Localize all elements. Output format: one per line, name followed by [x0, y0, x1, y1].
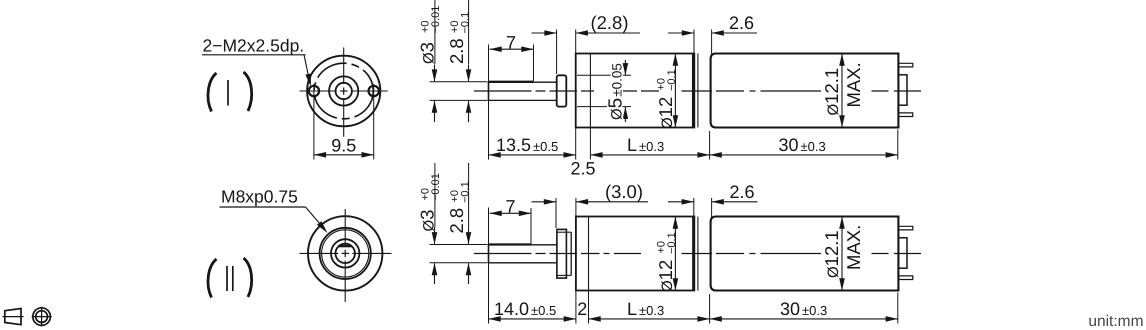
svg-text:(3.0): (3.0) [605, 181, 643, 202]
dimension 3.0ref tail left [532, 201, 557, 203]
dimension 2.8ref ext up from gearbox [575, 30, 577, 54]
svg-text:9.5: 9.5 [331, 135, 356, 155]
phi3 dim stub top [434, 0, 436, 64]
phi3-2 dim line lower [434, 263, 436, 284]
shaft top ext to left [430, 81, 488, 83]
shaft flat edge [489, 81, 534, 83]
svg-text:Ø3: Ø3 [417, 210, 438, 232]
gearbox rear thick edge 2 [692, 217, 695, 291]
flat 2.8-2 dim line upper [468, 229, 470, 244]
svg-text:−0.1: −0.1 [666, 232, 678, 254]
extension line left hole [313, 84, 315, 160]
dimension 2.6 ext right [711, 30, 713, 57]
phi12 dim line [674, 54, 676, 128]
view II mark right parenthesis [244, 258, 252, 297]
svg-text:Ø3: Ø3 [417, 42, 438, 64]
shaft top edge [489, 81, 557, 83]
view I horizontal centreline [300, 90, 337, 92]
shaft top ext to left 2 [430, 244, 488, 246]
view I mark right parenthesis [244, 72, 252, 111]
dimension 2.8ref tail left [532, 32, 557, 34]
ext motor face down 2 [709, 294, 711, 324]
dimension 7-2 right ext [530, 208, 532, 244]
terminal bottom [898, 113, 912, 117]
phi3 dim line upper [434, 65, 436, 82]
phi12-2 dim line [674, 217, 676, 291]
leader line to mounting hole [304, 55, 310, 82]
shaft bottom ext to left [430, 99, 488, 101]
dimension 7 right ext [533, 45, 535, 82]
dimension 9.5 line [314, 154, 374, 156]
svg-text:7: 7 [506, 32, 516, 52]
svg-text:2.5: 2.5 [570, 159, 595, 179]
dimension 2.6-2 tail left [668, 201, 694, 203]
flat 2.8 dim stub top [468, 0, 470, 64]
view II boss circle [331, 239, 359, 267]
view II mark bar 1 [226, 266, 228, 291]
dimension 13.5 line [489, 154, 576, 156]
phi5 extension line top [577, 74, 631, 76]
dimension 2.6 arrows [682, 30, 694, 36]
flat 2.8-2 dim line lower [468, 263, 470, 284]
side view 1 centreline [474, 90, 532, 92]
dimension 7 left ext [488, 44, 490, 46]
ext gearbox face down 2 [575, 291, 577, 324]
view II thread crest circle [320, 228, 371, 279]
motor end boss 2 [898, 238, 907, 268]
dimension 2.6-2 arrows [682, 199, 694, 205]
shaft flat edge 2 [489, 243, 532, 245]
terminal top [898, 63, 912, 67]
svg-text:2.8: 2.8 [446, 38, 467, 64]
svg-text:−0.1: −0.1 [666, 69, 678, 91]
gearbox front plate line 2 [588, 217, 590, 291]
dimension 30-2 line [710, 318, 898, 320]
view I body outer circle [307, 56, 380, 127]
svg-text:−0.01: −0.01 [430, 6, 442, 34]
svg-text:−0.01: −0.01 [430, 173, 442, 201]
motor end boss [898, 75, 907, 105]
view II vertical centreline [344, 209, 346, 246]
view II mark left parenthesis [208, 259, 217, 298]
leader arrowhead [305, 74, 311, 87]
terminal top 2 [898, 226, 912, 230]
view I bolt circle [314, 63, 373, 119]
leader underline for M8xp0.75 [220, 206, 306, 208]
svg-text:7: 7 [505, 197, 515, 217]
view I vertical centreline [343, 48, 345, 85]
projection symbol frustum centreline [3, 316, 24, 318]
dimension L-2 line [589, 318, 710, 320]
phi3 dim line lower [434, 101, 436, 122]
motor body [711, 54, 899, 128]
gearbox rear thick edge [692, 54, 695, 128]
thread bushing body [557, 229, 567, 278]
dimension 30 line [710, 154, 898, 156]
view II horizontal centreline [300, 252, 339, 254]
svg-text:Ø5±0.05: Ø5±0.05 [606, 63, 627, 120]
shaft bottom edge 2 [489, 262, 557, 264]
svg-text:M8xp0.75: M8xp0.75 [221, 186, 298, 206]
svg-text:2−M2x2.5dp.: 2−M2x2.5dp. [203, 36, 305, 56]
dimension 3.0ref ext right [575, 198, 577, 217]
bushing step edge [570, 232, 572, 275]
dimension 2.6-2 ext right [711, 198, 713, 219]
dimension 14.0 line [489, 318, 576, 320]
ext motor face down [709, 131, 711, 160]
view I hub circle [329, 76, 358, 105]
side view 2 centreline [474, 253, 532, 255]
dimension 2.6 tail right [712, 32, 757, 34]
projection symbol h centreline [32, 316, 52, 318]
dimension 3.0ref arrows [544, 199, 556, 205]
dimension 2.8ref tail right [576, 32, 640, 34]
thread root line top [557, 231, 571, 233]
svg-text:Ø12.1: Ø12.1 [821, 68, 842, 116]
gearbox front plate line [589, 54, 591, 128]
collar [557, 75, 567, 106]
shaft tip extension line 2 [488, 208, 490, 324]
washer line [697, 54, 699, 128]
svg-text:−0.1: −0.1 [460, 181, 472, 203]
ext front plate down [589, 128, 591, 160]
dimension 2.8ref arrow left [544, 30, 556, 36]
phi5 dim line lower [624, 107, 626, 122]
view II shaft flat chord [339, 245, 352, 247]
extension line right hole [373, 84, 375, 160]
phi12.1-2 dim line [841, 217, 843, 291]
view II mark bar 2 [232, 266, 234, 291]
view I left mounting hole [309, 86, 319, 96]
svg-text:Ø12: Ø12 [655, 97, 676, 129]
leader arrowhead II [317, 221, 328, 233]
projection symbol outer circle [33, 308, 51, 326]
svg-text:2.6: 2.6 [729, 13, 754, 33]
view II shaft circle [336, 244, 355, 263]
ext motor rear down [897, 130, 899, 160]
leader underline for 2-M2x2.5dp [202, 54, 306, 56]
shaft tip face 2 [488, 245, 490, 263]
shaft bottom ext to left 2 [430, 262, 488, 264]
motor body 2 [711, 217, 899, 291]
dimension 2.8ref left ext [556, 30, 558, 75]
flat 2.8-2 dim stub top [468, 163, 470, 229]
ext gearbox face down [575, 128, 577, 160]
dimension 2.6 tail left [668, 32, 694, 34]
phi3-2 dim stub top [434, 163, 436, 228]
svg-text:unit:mm: unit:mm [1088, 313, 1143, 330]
view I mark bar [227, 80, 229, 106]
svg-text:MAX.: MAX. [843, 62, 864, 107]
gearbox body 2 [576, 217, 694, 291]
svg-text:(2.8): (2.8) [590, 12, 628, 33]
phi5 dim line upper [624, 60, 626, 75]
phi5 extension line bottom [577, 106, 631, 108]
dimension 2.6-2 tail right [712, 201, 758, 203]
svg-text:2: 2 [577, 299, 587, 319]
dimension L line [590, 154, 709, 156]
shaft tip extension line [488, 45, 490, 160]
washer line 2 [697, 217, 699, 291]
view I shaft circle [336, 83, 352, 99]
leader line to thread [306, 207, 321, 225]
view II thread root circle [322, 230, 369, 277]
flat 2.8 dim line lower [468, 101, 470, 122]
shaft top edge 2 [489, 244, 557, 246]
projection symbol v centreline [41, 307, 43, 327]
thread root line bottom [557, 274, 571, 276]
svg-text:2.8: 2.8 [446, 208, 467, 234]
view I mark left parenthesis [208, 73, 217, 112]
svg-text:Ø12.1: Ø12.1 [821, 230, 842, 278]
shaft tip face [488, 82, 490, 100]
dimension 7-2 line [490, 212, 532, 214]
view II body outer circle [308, 216, 382, 290]
flat 2.8 dim line upper [468, 65, 470, 82]
svg-text:MAX.: MAX. [843, 225, 864, 270]
dimension 3.0ref ext left [555, 198, 557, 228]
ext motor rear down 2 [897, 293, 899, 324]
svg-text:−0.1: −0.1 [460, 12, 472, 34]
shaft bottom edge [489, 99, 557, 101]
dimension 3.0ref tail right [576, 201, 648, 203]
gearbox body [576, 54, 695, 128]
dimension 2.8ref arrow right [576, 30, 588, 36]
phi3-2 dim line upper [434, 228, 436, 244]
ext front plate down 2 [588, 291, 590, 324]
dimension 2.6 ext left [693, 30, 695, 54]
phi12.1 dim line [841, 54, 843, 128]
projection symbol frustum [5, 309, 21, 325]
terminal bottom 2 [898, 276, 912, 280]
svg-text:2.6: 2.6 [729, 182, 754, 202]
svg-text:Ø12: Ø12 [655, 260, 676, 292]
dimension 2.6-2 ext left [693, 198, 695, 217]
dimension 7 line [490, 48, 534, 50]
projection symbol inner circle [36, 311, 48, 323]
view I right mounting hole [369, 86, 379, 96]
